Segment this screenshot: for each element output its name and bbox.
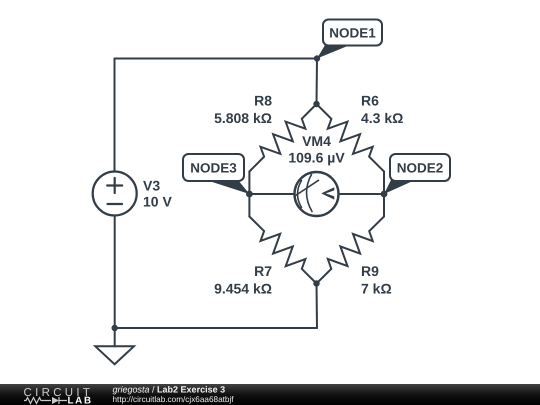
node flag NODE1 (317, 20, 382, 59)
svg-text:R7: R7 (254, 263, 272, 279)
wire right node stub down (383, 194, 385, 217)
svg-text:NODE1: NODE1 (329, 26, 376, 41)
resistor R7 (249, 217, 316, 284)
voltage source V3 (93, 172, 137, 216)
logo diode (52, 397, 59, 404)
ground stub (114, 328, 116, 346)
resistor R6 (317, 104, 385, 172)
resistor R9 (317, 217, 385, 284)
voltmeter needle V glyph (321, 187, 334, 199)
svg-text:109.6 µV: 109.6 µV (288, 149, 345, 165)
wire bottom node riser (316, 284, 319, 329)
wire voltmeter left (249, 193, 294, 195)
svg-text:9.454 kΩ: 9.454 kΩ (214, 281, 272, 297)
wire left node stub down (248, 194, 250, 217)
wire bottom horizontal (115, 327, 317, 329)
voltmeter VM4 (295, 172, 339, 216)
svg-text:LAB: LAB (68, 396, 93, 405)
svg-text:7 kΩ: 7 kΩ (361, 281, 392, 297)
svg-text:griegosta / Lab2 Exercise 3: griegosta / Lab2 Exercise 3 (113, 384, 226, 394)
wire left node stub up (248, 172, 250, 195)
node flag NODE2 (384, 154, 450, 194)
wire top horizontal (115, 58, 318, 60)
svg-text:10 V: 10 V (143, 194, 172, 210)
junction bridge bottom (313, 280, 319, 286)
junction bridge top (313, 101, 319, 107)
footer bar (0, 384, 540, 405)
junction node left (NODE3) (246, 191, 253, 198)
svg-text:NODE2: NODE2 (397, 161, 444, 176)
wire right node stub up (383, 172, 385, 195)
wire left vertical lower (114, 216, 116, 329)
logo resistor zigzag (24, 398, 51, 404)
svg-text:NODE3: NODE3 (190, 161, 237, 176)
resistor R8 (249, 104, 316, 172)
svg-text:R9: R9 (361, 263, 379, 279)
junction node right (NODE2) (381, 191, 388, 198)
node flag NODE3 (183, 154, 249, 194)
svg-text:R8: R8 (254, 93, 272, 109)
svg-text:VM4: VM4 (302, 133, 331, 149)
wire NODE1 drop to bridge top (316, 59, 319, 105)
svg-text:V3: V3 (143, 178, 160, 194)
junction ground (112, 325, 118, 331)
labels (143, 93, 403, 297)
wire left vertical upper (114, 59, 116, 172)
svg-text:5.808 kΩ: 5.808 kΩ (214, 110, 272, 126)
svg-text:http://circuitlab.com/cjx6aa68: http://circuitlab.com/cjx6aa68atbjf (113, 395, 235, 404)
svg-text:R6: R6 (361, 93, 379, 109)
svg-text:4.3 kΩ: 4.3 kΩ (361, 110, 403, 126)
wire voltmeter right (339, 193, 385, 195)
ground (95, 346, 134, 364)
junction node at NODE1 wire (314, 55, 320, 61)
